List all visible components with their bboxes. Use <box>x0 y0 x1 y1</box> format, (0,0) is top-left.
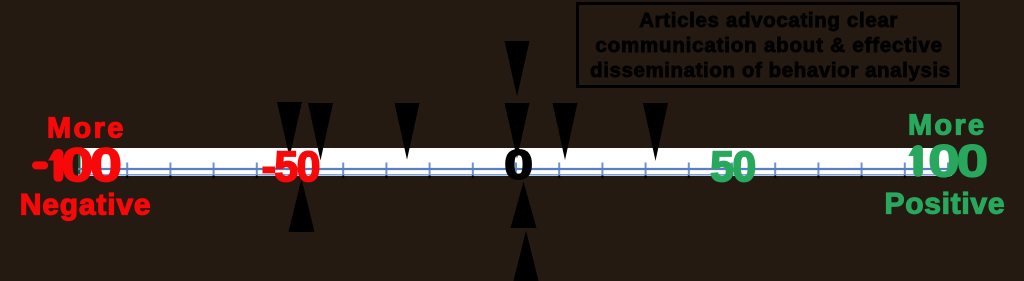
svg-text:50: 50 <box>710 144 756 191</box>
svg-text:0: 0 <box>62 140 94 192</box>
svg-text:-50: -50 <box>262 144 321 191</box>
svg-text:0: 0 <box>90 140 122 192</box>
svg-text:Positive: Positive <box>885 187 1005 220</box>
svg-text:0: 0 <box>957 135 989 186</box>
svg-text:0: 0 <box>504 141 533 187</box>
svg-text:Articles advocating clear: Articles advocating clear <box>639 9 897 32</box>
svg-text:Negative: Negative <box>20 189 151 222</box>
svg-text:0: 0 <box>928 135 960 186</box>
svg-text:dissemination of behavior anal: dissemination of behavior analysis <box>590 59 950 82</box>
svg-text:communication about & effectiv: communication about & effective <box>595 34 942 57</box>
